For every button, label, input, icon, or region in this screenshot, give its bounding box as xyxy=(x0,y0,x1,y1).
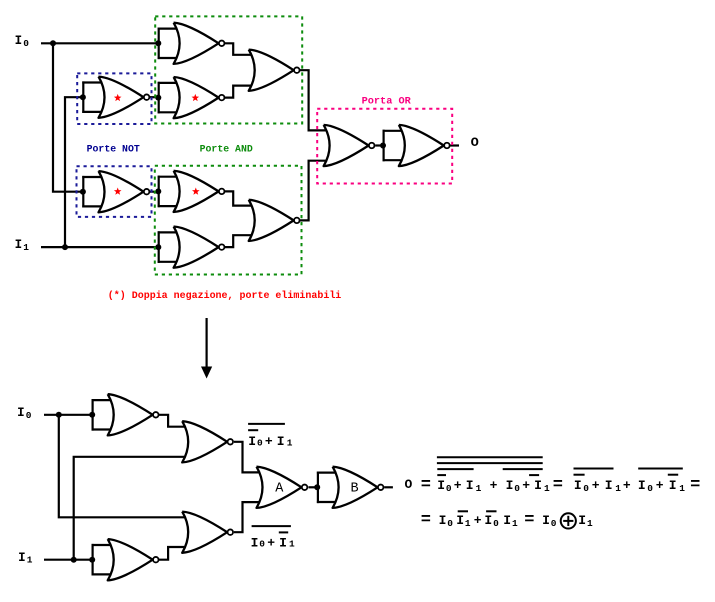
svg-text:0: 0 xyxy=(23,38,29,49)
svg-text:O: O xyxy=(471,135,479,150)
svg-text:0: 0 xyxy=(447,518,453,529)
wire I1 branch up to B2 bottom input xyxy=(74,457,192,560)
wire G9 output xyxy=(450,144,459,146)
svg-text:1: 1 xyxy=(476,483,482,494)
svg-text:I: I xyxy=(15,238,23,252)
svg-text:0: 0 xyxy=(493,518,499,529)
svg-text:1: 1 xyxy=(289,539,295,550)
nor-gate N2 (NOT I0, double-negation *) xyxy=(82,171,149,212)
nor-gate B xyxy=(317,467,384,508)
nor-gate B3 (NOR I0,I1bar) xyxy=(182,512,233,553)
svg-text:I: I xyxy=(484,513,492,528)
junction G9 input bar xyxy=(380,143,386,149)
svg-text:I: I xyxy=(251,535,259,550)
svg-text:(*) Doppia negazione, porte el: (*) Doppia negazione, porte eliminabili xyxy=(108,290,341,302)
svg-text:+: + xyxy=(623,478,631,493)
nor-gate B2 (NOR I0bar,I1) xyxy=(182,421,233,462)
wire I0 branch down to lower NOT xyxy=(53,43,83,191)
junction I1 branch xyxy=(62,244,68,250)
junction G5 input bar xyxy=(155,188,161,194)
svg-text:I: I xyxy=(605,478,613,493)
svg-text:0: 0 xyxy=(257,437,263,448)
wire N1 output to G2 xyxy=(150,96,159,98)
nor-gate B4 (NOT I1, bottom circuit) xyxy=(92,539,159,580)
green dashed box: lower Porte AND xyxy=(155,166,302,275)
svg-text:+: + xyxy=(522,478,530,493)
junction G2 input bar xyxy=(155,95,161,101)
svg-text:+: + xyxy=(592,478,600,493)
wire I0 input horizontal xyxy=(41,42,159,44)
svg-text:I: I xyxy=(466,478,474,493)
svg-text:1: 1 xyxy=(287,437,293,448)
wire gate B output xyxy=(384,486,393,488)
nor-gate G1 (I0 inverter, AND block top) xyxy=(158,23,225,64)
junction N2 input bar xyxy=(80,189,86,195)
svg-text:+: + xyxy=(267,535,275,550)
svg-text:0: 0 xyxy=(647,483,653,494)
svg-text:O: O xyxy=(405,477,413,492)
wire I1 input (bottom circuit) xyxy=(44,559,93,561)
wire B3 output up to gate A bottom input xyxy=(234,502,266,532)
formula term: overline(I0bar + I1) xyxy=(574,469,622,494)
svg-text:B: B xyxy=(351,482,359,497)
wire I1 input horizontal xyxy=(41,246,159,248)
magenta dashed box: Porta OR xyxy=(317,109,452,184)
formula line2: I0 with bar xyxy=(484,511,499,529)
svg-text:Porta OR: Porta OR xyxy=(362,97,411,108)
wire G8 output to G9 xyxy=(375,144,383,146)
node label: overline( I0 + overline(I1) ) xyxy=(251,526,295,550)
svg-text:I: I xyxy=(456,513,464,528)
green dashed box: upper Porte AND xyxy=(155,16,302,123)
junction G1 input bar xyxy=(155,40,161,46)
blue dashed box: upper Porte NOT xyxy=(77,73,151,124)
svg-text:1: 1 xyxy=(615,483,621,494)
formula line2: xor symbol xyxy=(561,513,576,528)
svg-text:I: I xyxy=(669,478,677,493)
wire I1 branch up to upper NOT xyxy=(65,97,83,247)
nor-gate B1 (NOT I0, bottom circuit) xyxy=(92,394,159,435)
svg-text:0: 0 xyxy=(259,539,265,550)
svg-text:1: 1 xyxy=(587,518,593,529)
svg-text:I: I xyxy=(17,406,25,420)
svg-text:I: I xyxy=(277,434,285,449)
junction B4 input bar xyxy=(89,557,95,563)
junction N1 input bar xyxy=(80,94,86,100)
nor-gate G8 (OR block first gate) xyxy=(324,125,375,166)
svg-text:+: + xyxy=(490,478,498,493)
svg-text:I: I xyxy=(248,434,256,449)
formula line2: I1 with bar xyxy=(456,511,471,529)
svg-text:=: = xyxy=(553,476,563,495)
wire G3 output down to OR gate top input xyxy=(300,70,333,130)
junction gate B input bar xyxy=(314,484,320,490)
svg-text:I: I xyxy=(534,478,542,493)
formula expr1: quadruple-overlined I0bar+I1+I0+I1bar xyxy=(437,457,550,494)
svg-text:Porte AND: Porte AND xyxy=(200,145,253,156)
wire G7 output up to OR gate bottom input xyxy=(300,161,333,221)
nor-gate N1 (NOT I1, double-negation *) xyxy=(82,77,149,118)
wire gate A output to gate B xyxy=(309,486,318,488)
svg-text:0: 0 xyxy=(551,518,557,529)
wire I0 branch down to B3 top input xyxy=(59,415,192,518)
blue dashed box: lower Porte NOT xyxy=(77,166,152,217)
svg-text:0: 0 xyxy=(26,410,32,421)
wire G1 output jog to G3 top input xyxy=(225,43,258,55)
svg-text:0: 0 xyxy=(446,483,452,494)
arrow down between circuits xyxy=(201,318,212,379)
nor-gate G2 (double-negation *, AND block) xyxy=(158,77,225,118)
nor-gate G5 (double-negation *, lower AND block) xyxy=(158,171,225,212)
svg-text:0: 0 xyxy=(583,483,589,494)
svg-text:=: = xyxy=(524,511,534,530)
svg-text:I: I xyxy=(542,513,550,528)
svg-text:I: I xyxy=(18,551,26,565)
junction I0 branch (bottom) xyxy=(56,412,62,418)
svg-text:I: I xyxy=(279,535,287,550)
svg-text:I: I xyxy=(439,513,447,528)
svg-text:=: = xyxy=(421,511,431,530)
nor-gate G7 (lower AND output) xyxy=(249,200,300,241)
svg-text:I: I xyxy=(638,478,646,493)
wire B1 output jog to B2 top input xyxy=(159,415,192,427)
svg-text:I: I xyxy=(15,34,23,48)
svg-text:Porte NOT: Porte NOT xyxy=(87,145,140,156)
svg-text:A: A xyxy=(275,482,284,497)
svg-text:+: + xyxy=(474,513,482,528)
wire G6 output jog to G7 bottom input xyxy=(225,235,258,247)
svg-text:0: 0 xyxy=(514,483,520,494)
node label: overline( overline(I0) + I1 ) xyxy=(248,424,293,449)
formula term: overline(I0 + I1bar) xyxy=(638,469,685,494)
junction B1 input bar xyxy=(89,412,95,418)
svg-text:I: I xyxy=(503,513,511,528)
svg-text:+: + xyxy=(454,478,462,493)
wire B2 output down to gate A top input xyxy=(234,442,266,473)
svg-text:I: I xyxy=(574,478,582,493)
svg-text:=: = xyxy=(690,476,700,495)
nor-gate G9 (OR block inverter) xyxy=(383,125,450,166)
wire G5 output jog to G7 top input xyxy=(225,191,258,205)
svg-text:+: + xyxy=(656,478,664,493)
junction I1 branch (bottom) xyxy=(71,557,77,563)
wire I0 input (bottom circuit) xyxy=(44,414,93,416)
svg-text:1: 1 xyxy=(23,242,29,253)
wire G2 output jog to G3 bottom input xyxy=(225,86,258,98)
nor-gate G3 (upper AND output) xyxy=(249,50,300,91)
nor-gate G6 (I1 inverter, AND block bottom) xyxy=(158,227,225,268)
svg-text:I: I xyxy=(506,478,514,493)
svg-text:1: 1 xyxy=(465,518,471,529)
svg-text:I: I xyxy=(578,513,586,528)
svg-text:+: + xyxy=(265,434,273,449)
junction G6 input bar xyxy=(155,244,161,250)
wire B4 output jog to B3 bottom input xyxy=(159,547,192,560)
svg-text:1: 1 xyxy=(679,483,685,494)
svg-text:I: I xyxy=(437,478,445,493)
svg-text:1: 1 xyxy=(27,555,33,566)
nor-gate A xyxy=(257,467,308,508)
junction I0 branch xyxy=(50,40,56,46)
svg-text:1: 1 xyxy=(512,518,518,529)
svg-text:=: = xyxy=(421,476,431,495)
svg-text:1: 1 xyxy=(544,483,550,494)
wire N2 output to G5 xyxy=(150,191,159,193)
